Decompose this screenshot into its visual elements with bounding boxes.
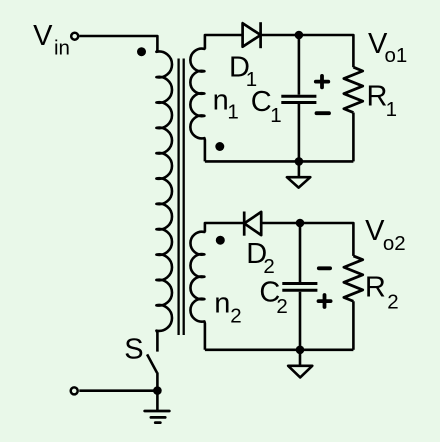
minus sign C1 (317, 111, 330, 115)
svg-text:n: n (213, 85, 229, 117)
wire n2 top rail left (205, 223, 244, 232)
svg-text:C: C (251, 86, 272, 118)
polarity dot primary (137, 47, 146, 56)
diode D2 cathode bar (243, 212, 246, 236)
plus sign C1 (316, 76, 329, 88)
ground 1 triangle stub (298, 161, 301, 176)
wire R1 bottom (352, 113, 355, 162)
junction dot n1 bottom rail (295, 157, 304, 166)
ground earth bar 1 (145, 410, 170, 413)
capacitor C1 top lead (298, 35, 301, 95)
resistor R1 zigzag (344, 67, 363, 112)
capacitor C1 plates (281, 95, 316, 98)
transformer secondary winding n1 (190, 48, 205, 161)
svg-text:R: R (367, 80, 388, 112)
wire R2 bottom (352, 301, 355, 350)
capacitor C2 plates (282, 282, 317, 285)
svg-text:R: R (365, 271, 386, 303)
wire n1 bottom rail (205, 160, 354, 163)
diode D1 cathode bar (259, 22, 262, 48)
wire D2 anode to R2 top (261, 223, 353, 256)
junction dot D2 output node (296, 219, 305, 228)
capacitor C2 bottom lead (299, 292, 302, 350)
wire n1 top rail left (205, 35, 243, 49)
svg-text:2: 2 (387, 291, 398, 314)
capacitor C2 top lead (299, 223, 302, 283)
transformer T1 primary winding (156, 51, 172, 352)
wire Vin to transformer primary top (79, 36, 157, 51)
svg-text:1: 1 (270, 104, 281, 127)
svg-text:n: n (214, 288, 230, 320)
resistor R2 zigzag (344, 256, 363, 301)
svg-text:o2: o2 (383, 232, 406, 255)
ground 2 triangle stub (299, 350, 302, 365)
minus sign C2 (319, 266, 330, 270)
transformer secondary winding n2 (190, 231, 204, 349)
ground 1 triangle (287, 177, 310, 187)
junction dot n2 bottom rail (296, 346, 305, 355)
wire n2 bottom rail (205, 348, 354, 351)
svg-text:1: 1 (227, 101, 238, 124)
svg-text:o1: o1 (385, 44, 408, 67)
switch S blade (147, 354, 157, 372)
capacitor C1 bottom lead (298, 104, 301, 161)
diode D2 triangle (244, 212, 261, 235)
svg-text:V: V (33, 20, 53, 52)
ground earth stub (156, 391, 159, 411)
ground earth bar 2 (151, 416, 165, 419)
wire bottom terminal to junction (79, 389, 157, 392)
polarity dot n2 (216, 236, 225, 245)
ground earth bar 3 (155, 421, 160, 424)
svg-text:2: 2 (230, 305, 241, 328)
plus sign C2 (319, 295, 331, 307)
terminal Vin circle (71, 33, 78, 40)
svg-text:in: in (54, 36, 70, 59)
svg-text:1: 1 (386, 98, 397, 121)
ground 2 triangle (288, 366, 312, 378)
diode D1 triangle (243, 23, 261, 47)
junction dot D1 output node (295, 31, 304, 40)
svg-text:2: 2 (276, 295, 287, 318)
junction dot switch node (153, 386, 162, 395)
polarity dot n1 (215, 142, 224, 151)
wire switch to junction (156, 372, 159, 390)
svg-text:2: 2 (263, 255, 274, 278)
wire D1 cathode to R1 top (261, 35, 354, 67)
terminal bottom circle (71, 387, 78, 394)
svg-text:S: S (124, 334, 143, 366)
transformer core (177, 59, 179, 336)
